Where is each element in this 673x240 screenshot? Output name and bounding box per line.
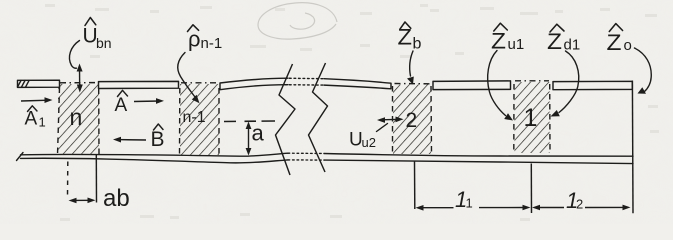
svg-text:n: n [70,104,83,130]
label Z_b with hat [398,22,422,53]
region n-1 top dash-dot line [181,82,218,84]
label l2 [566,188,583,213]
dashed extension line for ab [67,162,69,197]
leader from rho to region n-1 [178,53,200,104]
svg-text:b: b [413,36,422,53]
U_u2 double arrow [377,117,404,123]
top rail segment 1 [18,80,60,87]
ab double arrow [69,198,96,204]
top rail segment 3 (left of break) [220,78,288,90]
connector from U_u2 to its arrow [377,124,388,132]
label Z_u1 with hat [491,23,524,53]
svg-text:o: o [624,37,632,54]
arrow B [113,137,146,143]
region 2 right dashed border [430,86,433,154]
label Z_d1 with hat [547,24,580,54]
svg-text:2: 2 [576,197,583,212]
region n left dashed border [58,88,60,156]
svg-text:Z: Z [491,29,506,54]
hatched region 1 [515,82,550,153]
label B with hat and arrow [151,124,165,151]
top rail segment 2 [99,81,179,88]
svg-text:ρ: ρ [188,27,201,52]
region n top dash-dot line [60,82,98,84]
region 1 left dashed border [513,84,515,153]
load / end line at right [631,81,634,214]
leader from Z_d1 to region 1 right [551,51,579,117]
dimension l2 [532,205,631,211]
zigzag break line 1 [276,64,296,175]
label A1 with hat and arrow [25,106,46,130]
extension line below region 1 [530,164,532,214]
faint pencil scribble (bleed-through) [258,3,337,39]
svg-text:A: A [25,109,38,130]
region 2 top dash-dot line [395,83,432,85]
svg-text:1: 1 [524,104,538,132]
svg-text:ab: ab [103,185,130,212]
top rail segment 5 [553,81,632,89]
leader from Z_b to region 2 [407,51,414,85]
hatched region n-1 [180,84,219,155]
hatched region 2 (Zb) [393,85,431,155]
top rail segment 3 (right of break) [324,79,391,89]
label U_bn with hat [83,18,112,52]
svg-text:Z: Z [607,30,622,55]
region n-1 left dashed border [179,88,181,155]
break ticks on left end of top rail [18,81,30,88]
label A with hat and arrow [115,90,128,116]
svg-text:B: B [151,128,165,151]
label Z_o with hat [607,24,632,55]
svg-text:u2: u2 [362,135,376,150]
extension line below region 2 [414,162,416,210]
break squiggle at left end of bottom rail [17,153,24,161]
svg-text:1: 1 [466,196,473,211]
svg-text:2: 2 [406,109,418,132]
region n-1 right dashed border [218,88,220,155]
bottom rail lower line [21,158,289,163]
region n right dashed border [98,89,100,156]
zigzag break line 2 [309,63,328,172]
svg-text:n-1: n-1 [201,35,223,52]
svg-text:Z: Z [547,29,562,54]
leader from U_bn to voltage arrow [69,41,79,69]
region 2 left dashed border [392,86,394,154]
label rho_n-1 with hat [188,25,223,52]
svg-text:Z: Z [398,25,413,50]
Ubn voltage double arrow [77,64,83,93]
arrow A1 [21,97,53,103]
region 1 right dashed border [549,84,551,153]
solid extension line at right of ab [95,155,97,203]
svg-text:u1: u1 [508,36,525,53]
svg-text:A: A [115,95,128,116]
leader from Z_u1 to region 1 left [488,51,513,121]
hatched region n [58,84,99,155]
label l1 [455,187,473,212]
label U_u2 [349,130,376,151]
center dash-dot line (axis) [224,120,275,123]
svg-text:1: 1 [39,115,46,130]
leader from Z_o to line end [635,48,652,94]
region 1 top dashed line [515,80,549,82]
top rail dotted portion between break marks [285,78,323,85]
svg-text:a: a [252,121,265,146]
top rail segment 4 [433,81,511,90]
arrow A [134,98,164,104]
svg-text:n-1: n-1 [183,109,206,126]
svg-text:bn: bn [96,35,112,51]
dimension l1 [416,205,531,211]
dimension a double arrow [246,122,252,156]
bottom rail upper line [21,153,289,156]
